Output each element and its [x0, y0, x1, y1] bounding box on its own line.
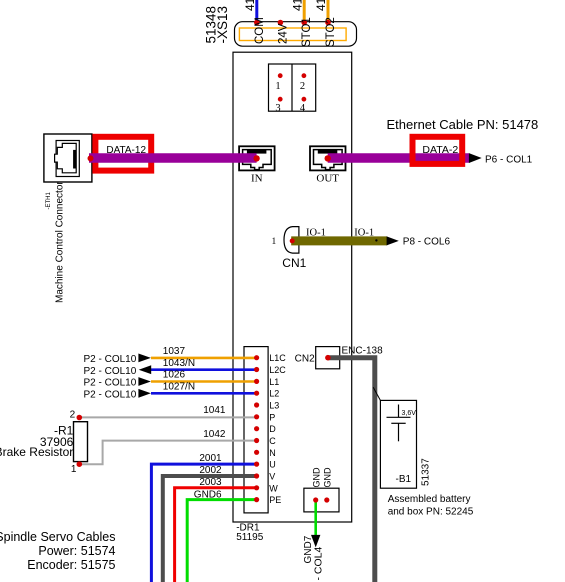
- wire STO1 orange to top: [303, 0, 306, 23]
- svg-text:Assembled battery: Assembled battery: [388, 494, 471, 505]
- STO jumper divider: [291, 64, 293, 111]
- svg-text:2001: 2001: [199, 453, 222, 464]
- svg-text:Spindle Servo Cables: Spindle Servo Cables: [0, 530, 116, 544]
- svg-text:GND6: GND6: [194, 489, 222, 500]
- pin STO1: [301, 20, 307, 26]
- wire COM blue to top: [255, 0, 258, 23]
- connector CN1: [284, 227, 299, 254]
- jack node dot: [88, 155, 94, 161]
- port IN node dot: [253, 155, 259, 161]
- svg-text:P2 - COL10: P2 - COL10: [83, 366, 136, 377]
- R1 pin 2 dot: [77, 415, 83, 421]
- pin COM: [254, 20, 260, 26]
- wire 1037 (orange): [151, 357, 257, 360]
- junction dot on IO cable: [375, 239, 377, 241]
- terminal V: [254, 473, 259, 478]
- svg-text:P2 - COL10: P2 - COL10: [83, 378, 136, 389]
- svg-text:1027/N: 1027/N: [163, 381, 195, 392]
- CN1 node dot: [290, 238, 295, 243]
- arrow P2-COL10 row2 (left): [139, 365, 152, 374]
- terminal L2C: [254, 367, 259, 372]
- svg-text:-B1: -B1: [396, 474, 412, 485]
- ethernet cable left (purple): [89, 153, 257, 163]
- STO jumper block: [269, 64, 316, 111]
- terminal PE: [254, 497, 259, 502]
- terminal U: [254, 462, 259, 467]
- svg-text:IN: IN: [251, 173, 263, 185]
- svg-text:51337: 51337: [421, 458, 432, 486]
- svg-text:1026: 1026: [163, 370, 186, 381]
- svg-text:2: 2: [70, 409, 76, 420]
- svg-text:P8 - COL6: P8 - COL6: [403, 236, 451, 247]
- svg-text:V: V: [269, 472, 275, 482]
- jumper pin 4: [302, 97, 307, 102]
- svg-text:1: 1: [271, 237, 276, 247]
- wire STO2 orange to top: [327, 0, 330, 23]
- svg-text:L1: L1: [269, 377, 279, 387]
- svg-text:3: 3: [275, 103, 280, 114]
- connector CN2: [316, 347, 340, 369]
- battery callout line: [373, 387, 380, 400]
- jumper pin 1: [278, 73, 283, 78]
- svg-text:PE: PE: [269, 495, 281, 505]
- port IN: [239, 146, 275, 170]
- wire 1043/N (blue): [151, 368, 257, 371]
- wire 1027/N (blue): [151, 392, 257, 395]
- svg-text:ENC-138: ENC-138: [342, 346, 384, 357]
- ground pin dot 2: [324, 497, 329, 502]
- svg-text:DATA-2: DATA-2: [422, 144, 458, 156]
- svg-text:COM: COM: [254, 17, 266, 44]
- svg-text:GND: GND: [323, 467, 333, 488]
- svg-text:3,6V: 3,6V: [402, 410, 417, 417]
- pin 24V: [278, 20, 284, 26]
- arrow P2-COL10 row1: [138, 354, 151, 363]
- red highlight DATA-2: [413, 137, 463, 164]
- svg-text:Power: 51574: Power: 51574: [38, 544, 115, 558]
- terminal L2: [254, 391, 259, 396]
- svg-text:C: C: [269, 436, 276, 446]
- svg-text:STO1: STO1: [301, 17, 313, 47]
- connector -XS13 body: [235, 22, 357, 47]
- terminal L1C: [254, 355, 259, 360]
- svg-text:2: 2: [300, 81, 305, 92]
- spindle cable PE (green): [187, 500, 256, 582]
- terminal strip -DR1: [244, 347, 268, 513]
- svg-text:U: U: [269, 460, 276, 470]
- wire 1041 (gray) R1 pin2 to P: [79, 416, 256, 418]
- encoder cable (dark gray): [328, 358, 375, 582]
- svg-text:-ETH1: -ETH1: [46, 192, 52, 210]
- R1 pin 1 dot: [77, 461, 83, 467]
- svg-text:L2C: L2C: [269, 365, 286, 375]
- terminal W: [254, 485, 259, 490]
- spindle cable V (dark gray): [163, 476, 257, 582]
- svg-text:Machine Control Connector: Machine Control Connector: [55, 181, 66, 303]
- terminal N: [254, 450, 259, 455]
- svg-text:P2 - COL10: P2 - COL10: [83, 354, 136, 365]
- svg-text:1037: 1037: [163, 346, 186, 357]
- ground pin dot 1: [313, 497, 318, 502]
- jumper pin 2: [302, 73, 307, 78]
- pin STO2: [325, 20, 331, 26]
- spindle cable U (blue): [151, 464, 256, 582]
- jumper pin 3: [278, 97, 283, 102]
- svg-text:2003: 2003: [199, 477, 222, 488]
- IO cable arrow P8: [387, 236, 399, 245]
- svg-text:P: P: [269, 412, 275, 422]
- svg-text:2002: 2002: [199, 465, 222, 476]
- svg-text:N: N: [269, 448, 276, 458]
- svg-text:1041: 1041: [203, 405, 226, 416]
- battery symbol: [387, 405, 411, 442]
- svg-text:Brake Resistor: Brake Resistor: [0, 445, 73, 459]
- svg-text:24V: 24V: [277, 23, 289, 44]
- terminal L1: [254, 379, 259, 384]
- CN2 node dot: [325, 355, 331, 361]
- battery B1 box: [380, 400, 416, 488]
- svg-text:IO-1: IO-1: [354, 228, 374, 239]
- ground wire arrow: [311, 535, 320, 548]
- svg-text:4103: 4103: [243, 0, 257, 11]
- svg-text:1042: 1042: [203, 429, 226, 440]
- terminal P: [254, 414, 259, 419]
- svg-text:OUT: OUT: [316, 173, 339, 185]
- svg-text:W: W: [269, 483, 278, 493]
- svg-text:1: 1: [71, 464, 77, 475]
- port OUT: [310, 146, 346, 170]
- svg-text:and box PN: 52245: and box PN: 52245: [388, 507, 474, 518]
- svg-text:STO2: STO2: [325, 17, 337, 47]
- drive unit box: [233, 52, 352, 522]
- svg-text:CN1: CN1: [282, 256, 306, 270]
- svg-text:CN2: CN2: [295, 354, 315, 365]
- ground wire (green): [314, 500, 317, 536]
- wire 1026 (orange): [151, 380, 257, 383]
- terminal C: [254, 438, 259, 443]
- spindle cable W (red): [175, 488, 257, 582]
- svg-text:L1C: L1C: [269, 353, 286, 363]
- arrow P2-COL10 row3: [138, 377, 151, 386]
- svg-text:Encoder: 51575: Encoder: 51575: [27, 558, 115, 572]
- svg-text:L2: L2: [269, 389, 279, 399]
- svg-text:51195: 51195: [236, 532, 264, 543]
- svg-text:P6 - COL1: P6 - COL1: [485, 155, 533, 166]
- svg-text:GND: GND: [311, 467, 321, 488]
- wire 1042 (gray) R1 pin1 to C: [79, 441, 256, 465]
- svg-text:4103: 4103: [314, 0, 328, 11]
- terminal D: [254, 426, 259, 431]
- svg-text:Ethernet Cable PN: 51478: Ethernet Cable PN: 51478: [387, 117, 539, 132]
- svg-text:1: 1: [275, 81, 280, 92]
- IO cable (olive): [291, 236, 387, 245]
- ground connector box: [304, 488, 339, 512]
- cable arrow P6: [469, 153, 482, 163]
- brake resistor R1: [74, 422, 88, 462]
- svg-text:4: 4: [300, 103, 306, 114]
- arrow P2-COL10 row4: [138, 389, 151, 398]
- red highlight DATA-12: [95, 137, 151, 171]
- ethernet cable right (purple): [328, 153, 470, 163]
- connector -XS13 orange frame: [239, 28, 346, 41]
- svg-text:-XS13: -XS13: [215, 6, 230, 44]
- svg-text:4103: 4103: [290, 0, 304, 11]
- svg-text:1043/N: 1043/N: [163, 358, 195, 369]
- terminal L3: [254, 402, 259, 407]
- port OUT node dot: [325, 155, 331, 161]
- svg-text:P2 - COL10: P2 - COL10: [83, 389, 136, 400]
- svg-text:L3: L3: [269, 401, 279, 411]
- svg-text:IO-1: IO-1: [306, 228, 326, 239]
- svg-text:D: D: [269, 424, 276, 434]
- machine control connector jack: [44, 134, 92, 182]
- svg-text:- COL4: - COL4: [313, 546, 325, 580]
